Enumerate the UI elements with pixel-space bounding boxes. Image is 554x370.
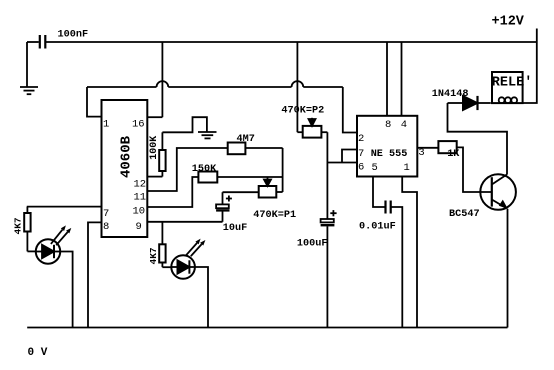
wire (diode anode to collector node) [448, 103, 508, 175]
resistor 4M7 [228, 143, 246, 155]
svg-text:3: 3 [418, 147, 424, 159]
svg-text:4K7: 4K7 [148, 247, 159, 264]
wire pin1-4060B to pin2-555 (with hops) [87, 81, 357, 132]
svg-text:100K: 100K [149, 136, 160, 160]
svg-text:0.01uF: 0.01uF [359, 221, 396, 232]
resistor 4K7 (first) [24, 207, 36, 252]
label + (10uF) [226, 196, 232, 202]
wire LED D1 to 0V [60, 252, 72, 328]
wire pin 1 elbow [87, 87, 102, 117]
svg-text:4: 4 [401, 119, 407, 131]
wire pin 8 to 0V [88, 222, 102, 327]
svg-text:11: 11 [134, 191, 147, 203]
svg-text:4K7: 4K7 [12, 217, 23, 234]
wire right node vertical [282, 148, 284, 192]
svg-text:0 V: 0 V [28, 347, 48, 359]
svg-text:1N4148: 1N4148 [432, 89, 469, 100]
svg-text:2: 2 [358, 133, 364, 145]
svg-text:+12V: +12V [492, 15, 525, 30]
wire pin 10 to 150K [147, 177, 198, 207]
svg-text:NE 555: NE 555 [371, 149, 408, 160]
IC U2 NE555 [357, 116, 417, 177]
wire 555 pin 1 to 0V [402, 177, 417, 328]
svg-text:16: 16 [132, 118, 145, 130]
wire +12V top rail [45, 41, 537, 43]
wire pin 9 [147, 221, 222, 223]
wire pin 7 [27, 206, 102, 208]
svg-text:150K: 150K [192, 164, 217, 175]
svg-text:9: 9 [136, 221, 142, 233]
LED D2 arrows [186, 239, 205, 257]
resistor 100K [147, 132, 165, 176]
svg-text:12: 12 [134, 178, 147, 190]
wire 4M7 right [245, 147, 282, 149]
wire 555 pin 5 [373, 177, 385, 208]
label + (100uF) [330, 210, 336, 216]
wire (ground to capacitor) [27, 41, 39, 43]
svg-text:1: 1 [103, 118, 109, 130]
resistor 1K [438, 141, 456, 153]
wire +12V drop (right edge) [522, 29, 537, 104]
svg-text:470K=P1: 470K=P1 [253, 210, 296, 221]
relay RELE' [492, 72, 523, 103]
wire LED D2 to 0V [195, 267, 208, 328]
wire P2 to 100uF / pins 6-7 [326, 132, 328, 219]
svg-text:7: 7 [358, 148, 364, 160]
svg-text:BC547: BC547 [449, 209, 480, 220]
wire 150K right [217, 176, 282, 178]
IC U1 4060B [102, 100, 148, 237]
svg-text:10uF: 10uF [223, 223, 247, 234]
wire pin 16 to rail [147, 42, 162, 117]
transistor Q1 BC547 [480, 174, 516, 327]
wire 555 pin 7 tie [342, 150, 357, 163]
svg-text:RELE': RELE' [492, 76, 533, 91]
potentiometer P2 [297, 42, 327, 138]
wire 555 pin 3 [417, 147, 438, 149]
capacitor 0.01uF [386, 201, 403, 328]
svg-text:4M7: 4M7 [237, 134, 255, 145]
resistor 4K7 (second) [159, 222, 171, 267]
ground (near 4060B) [198, 132, 217, 138]
LED D1 arrows [51, 225, 71, 245]
svg-text:4060B: 4060B [119, 135, 135, 178]
svg-text:1K: 1K [447, 149, 460, 160]
wire 555 pin 4 to rail [401, 42, 403, 116]
LED D2 [171, 255, 195, 279]
diode 1N4148 [448, 96, 491, 110]
wire to ground (pin 12 node) [162, 117, 207, 132]
capacitor 100uF [321, 219, 335, 328]
resistor 150K [198, 172, 217, 183]
wire 555 pin 6 tie [327, 162, 357, 164]
potentiometer P1 [223, 177, 283, 198]
svg-text:470K=P2: 470K=P2 [281, 105, 324, 116]
svg-text:8: 8 [103, 221, 109, 233]
wire 555 pin 8 to rail [386, 42, 388, 116]
wire pin 11 to 4M7 [147, 148, 227, 191]
svg-text:100uF: 100uF [297, 238, 328, 249]
ground (top left) [20, 42, 38, 94]
svg-text:1: 1 [404, 162, 410, 174]
svg-text:6: 6 [358, 162, 364, 174]
svg-text:100nF: 100nF [58, 29, 89, 40]
svg-text:7: 7 [103, 208, 109, 220]
svg-text:8: 8 [385, 119, 391, 131]
wire 0V bottom rail [27, 327, 507, 329]
wire 1K to base [457, 147, 492, 192]
capacitor 10uF [216, 192, 229, 222]
svg-text:10: 10 [133, 205, 146, 217]
capacitor 100nF [40, 35, 46, 49]
LED D1 [36, 239, 60, 263]
svg-text:5: 5 [372, 162, 378, 174]
